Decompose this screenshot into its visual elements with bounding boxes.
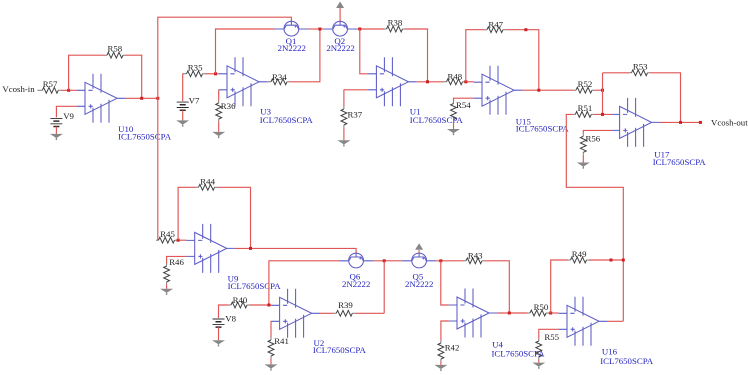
wire R35 to U3 inverting input xyxy=(205,73,219,75)
wire R42 to ground xyxy=(440,362,442,365)
resistor R58 xyxy=(105,52,126,58)
resistor R43 xyxy=(464,258,485,264)
ground (below V8) xyxy=(212,340,225,346)
svg-text:R57: R57 xyxy=(43,79,58,89)
input pin stub xyxy=(37,89,40,91)
wire R56 to U17 non-inverting input xyxy=(583,130,611,133)
wire U3 output to R34 xyxy=(267,81,268,83)
node U9 inverting junction xyxy=(177,239,180,242)
node R47 wire junction xyxy=(524,28,527,31)
node Q2 output junction xyxy=(358,28,361,31)
node U2 inverting junction xyxy=(267,304,270,307)
power arrow (above Q5) xyxy=(415,243,423,250)
wire R53 down to U17 output xyxy=(650,73,681,123)
resistor R35 xyxy=(184,71,205,77)
resistor R48 xyxy=(444,79,465,85)
svg-text:ICL7650SCPA: ICL7650SCPA xyxy=(228,281,282,291)
wire R48 to U15 inverting input xyxy=(465,81,474,83)
wire R51 to U17 inverting input xyxy=(594,113,611,115)
svg-text:ICL7650SCPA: ICL7650SCPA xyxy=(600,356,654,366)
op-amp U17 xyxy=(611,98,660,147)
wire U10 output xyxy=(125,97,157,99)
svg-text:R54: R54 xyxy=(456,100,471,110)
svg-text:R35: R35 xyxy=(188,62,203,72)
resistor R38 xyxy=(384,26,405,32)
wire U2 non-inverting to R41 xyxy=(270,321,272,337)
wire U15 output to R52 xyxy=(522,89,573,91)
wire U16 output to riser xyxy=(607,320,623,322)
svg-text:R48: R48 xyxy=(448,71,463,81)
resistor R39 xyxy=(334,310,355,316)
wire U9 output to Q6 base xyxy=(235,248,356,253)
wire R49 to output riser xyxy=(589,259,623,261)
resistor R40 xyxy=(229,302,250,308)
svg-text:R41: R41 xyxy=(274,336,289,346)
node R49 wire junction xyxy=(610,259,613,262)
svg-text:2N2222: 2N2222 xyxy=(405,279,433,289)
svg-text:R37: R37 xyxy=(348,110,363,120)
resistor R41 xyxy=(268,338,274,359)
resistor R51 xyxy=(573,112,594,118)
svg-text:Vcosh-in: Vcosh-in xyxy=(2,84,35,94)
resistor R57 xyxy=(40,87,61,93)
wire R39 to Q6 junction riser xyxy=(355,312,384,314)
ground (below V7) xyxy=(176,120,189,126)
wire Q1 collector to Q2 xyxy=(308,28,323,30)
wire R45 to U9 inverting input xyxy=(177,239,186,241)
wire feedback via R58 left/up xyxy=(69,55,105,90)
op-amp U3 xyxy=(219,57,268,106)
resistor R49 xyxy=(568,257,589,263)
resistor R37 xyxy=(341,107,347,128)
wire R53 top run xyxy=(603,72,630,74)
resistor R54 xyxy=(451,101,457,122)
node U15 inverting junction xyxy=(464,80,467,83)
wire U2 output to R39 xyxy=(320,312,334,314)
node U3 inverting junction xyxy=(214,72,217,75)
ground (below R56) xyxy=(577,163,590,169)
ground (below R46) xyxy=(160,289,173,295)
wire R46 to U9 non-inverting input xyxy=(167,256,187,263)
svg-text:V9: V9 xyxy=(63,111,74,121)
svg-text:R52: R52 xyxy=(578,79,593,89)
ground (below R37) xyxy=(337,140,350,146)
resistor R34 xyxy=(269,79,290,85)
wire Q5 junction down to U4 inverting input xyxy=(441,261,449,305)
ground (below R42) xyxy=(434,365,447,371)
wire U3 inverting node up to Q1 emitter xyxy=(216,29,275,74)
wire U4 output to R50 xyxy=(497,312,527,314)
op-amp U10 xyxy=(77,74,126,123)
wire R37 to U1 non-inverting input xyxy=(344,90,368,107)
svg-text:ICL7650SCPA: ICL7650SCPA xyxy=(653,157,707,167)
wire feedback via R44 up xyxy=(178,187,196,240)
wire Q6 emitter to U2 inverting node xyxy=(269,261,339,305)
node U10 feedback junction xyxy=(140,97,143,100)
svg-text:R42: R42 xyxy=(445,342,460,352)
svg-text:R58: R58 xyxy=(108,43,123,53)
wire Q2 junction down to U1 inverting input xyxy=(360,29,368,74)
ground (below R41) xyxy=(265,364,278,370)
ground (below R36) xyxy=(212,132,225,138)
svg-text:R34: R34 xyxy=(272,72,287,82)
wire R34 up to Q1/Q2 junction xyxy=(290,29,320,82)
battery V9 xyxy=(50,118,62,126)
wire V9 to U10 non-inverting input xyxy=(56,106,76,117)
op-amp U2 xyxy=(271,289,320,338)
wire V7 to R35 xyxy=(183,74,184,101)
wire Q6 to Q5 xyxy=(373,260,402,262)
svg-text:R39: R39 xyxy=(338,300,353,310)
wire U4 non-inverting to R42 xyxy=(441,321,449,341)
wire R43 down to U4 output xyxy=(485,261,510,313)
op-amp U9 xyxy=(186,224,235,273)
wire U1 output to R48 xyxy=(417,81,444,83)
wire V7 negative lead xyxy=(182,110,184,120)
wire feedback via R47 up xyxy=(466,30,485,82)
resistor R52 xyxy=(574,87,595,93)
wire R46 to ground xyxy=(166,285,168,289)
svg-text:Vcosh-out: Vcosh-out xyxy=(711,118,748,128)
svg-text:R49: R49 xyxy=(572,249,587,259)
node output terminal xyxy=(699,121,702,124)
node U17 inverting junction xyxy=(601,113,604,116)
ground (below R55) xyxy=(532,363,545,369)
wire Q5 to R43 xyxy=(436,260,463,262)
wire R58 to U10 output xyxy=(126,55,142,98)
wire V8 to R40 xyxy=(219,305,229,318)
node U17 output junction xyxy=(679,121,682,124)
svg-text:R51: R51 xyxy=(578,103,593,113)
transistor Q6 xyxy=(339,253,373,268)
wire R50 to U16 inverting input xyxy=(549,312,559,314)
wire R40 to U2 inverting input xyxy=(250,304,272,306)
wire R47 down to U15 output xyxy=(506,30,539,90)
svg-text:R44: R44 xyxy=(200,176,215,186)
svg-text:V8: V8 xyxy=(225,314,236,324)
op-amp U1 xyxy=(368,57,417,106)
wire R52 to node xyxy=(595,89,603,91)
wire R54 to U15 non-inverting input xyxy=(454,98,474,101)
wire R56 to ground xyxy=(582,155,584,163)
transistor Q1 xyxy=(274,21,308,36)
svg-text:R47: R47 xyxy=(488,19,503,29)
ground (below V9) xyxy=(50,134,63,140)
op-amp U16 xyxy=(559,297,608,346)
wire R38 down to U1 output xyxy=(405,29,428,82)
wire V9 negative lead xyxy=(55,127,57,134)
wire R37 to ground xyxy=(343,128,345,141)
node input junction xyxy=(67,89,70,92)
wire U16 inverting node up to R49 xyxy=(551,260,568,313)
resistor R56 xyxy=(580,134,586,155)
wire U16 output loop up to R51 xyxy=(566,114,623,321)
svg-text:R56: R56 xyxy=(586,134,601,144)
power arrow (above Q2) xyxy=(336,2,344,9)
wire R36 to ground xyxy=(218,122,220,132)
wire R55 to U16 non-inverting input xyxy=(539,329,559,338)
svg-text:R45: R45 xyxy=(160,229,175,239)
svg-text:R38: R38 xyxy=(388,17,403,27)
resistor R50 xyxy=(528,310,549,316)
wire power arrow to Q2 base xyxy=(339,8,341,21)
svg-text:V7: V7 xyxy=(189,96,200,106)
wire Q2 to R38 xyxy=(357,28,384,30)
wire U10 output bus up to Q1 base and down to R45 xyxy=(158,17,292,240)
wire U17 output to port xyxy=(660,121,701,123)
svg-text:2N2222: 2N2222 xyxy=(326,43,354,53)
battery V7 xyxy=(177,102,189,110)
svg-text:R40: R40 xyxy=(233,295,248,305)
wire Q6 junction down to R39 xyxy=(383,261,385,314)
resistor R36 xyxy=(216,101,222,122)
wire R41 to ground xyxy=(270,359,272,365)
node U1 output junction xyxy=(426,80,429,83)
resistor R42 xyxy=(438,341,444,362)
resistor R47 xyxy=(485,27,506,33)
op-amp U4 xyxy=(449,289,498,338)
wire node chain vertical R53-R52-R51 xyxy=(602,73,604,115)
node Q1-Q2 junction xyxy=(318,28,321,31)
resistor R46 xyxy=(164,264,170,285)
svg-text:R55: R55 xyxy=(544,332,559,342)
node U15 output junction xyxy=(537,89,540,92)
resistor R45 xyxy=(156,237,177,243)
svg-text:ICL7650SCPA: ICL7650SCPA xyxy=(313,345,367,355)
battery V8 xyxy=(213,319,225,327)
svg-text:ICL7650SCPA: ICL7650SCPA xyxy=(118,132,172,142)
ground (below R54) xyxy=(447,129,460,135)
transistor Q2 xyxy=(323,21,357,36)
resistor R55 xyxy=(536,339,542,360)
svg-text:R53: R53 xyxy=(633,61,648,71)
svg-text:2N2222: 2N2222 xyxy=(342,279,370,289)
wire R55 to ground xyxy=(538,360,540,363)
wire R54 to ground xyxy=(453,122,455,129)
node U9 output junction xyxy=(249,247,252,250)
node Q6-Q5 junction xyxy=(383,259,386,262)
resistor R44 xyxy=(196,184,217,190)
node Q5 output junction xyxy=(439,259,442,262)
node U16 inverting junction xyxy=(549,312,552,315)
node R49 riser junction xyxy=(622,259,625,262)
svg-text:R46: R46 xyxy=(169,257,184,267)
svg-text:R43: R43 xyxy=(468,251,483,261)
svg-text:2N2222: 2N2222 xyxy=(278,43,306,53)
op-amp U15 xyxy=(474,66,523,115)
svg-text:R50: R50 xyxy=(534,302,549,312)
svg-text:ICL7650SCPA: ICL7650SCPA xyxy=(410,115,464,125)
node R52 junction xyxy=(601,89,604,92)
svg-text:ICL7650SCPA: ICL7650SCPA xyxy=(260,115,314,125)
wire R44 down to U9 output xyxy=(217,187,251,248)
node U4 output junction xyxy=(508,312,511,315)
wire power arrow to Q5 base xyxy=(418,250,420,253)
wire U3 non-inverting to R36 xyxy=(218,90,220,101)
resistor R53 xyxy=(629,70,650,76)
svg-text:ICL7650SCPA: ICL7650SCPA xyxy=(516,123,570,133)
svg-text:R36: R36 xyxy=(221,101,236,111)
wire R57 to U10 inverting input xyxy=(61,89,77,91)
node U10 output junction xyxy=(156,97,159,100)
transistor Q5 xyxy=(402,253,436,268)
wire V8 negative lead xyxy=(218,327,220,340)
